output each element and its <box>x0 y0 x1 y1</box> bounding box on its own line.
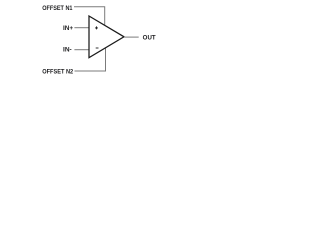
svg-text:IN-: IN- <box>63 48 72 54</box>
svg-text:OUT: OUT <box>143 35 156 41</box>
plus mark (non-inverting input) <box>95 26 98 29</box>
wire IN- to op-amp <box>74 49 89 51</box>
wire IN+ to op-amp <box>74 27 89 29</box>
svg-text:IN+: IN+ <box>63 26 74 32</box>
wire OFFSET N2 to op-amp bottom edge <box>75 48 106 71</box>
wire OFFSET N1 to op-amp top edge <box>74 7 105 26</box>
minus mark (inverting input) <box>96 47 99 49</box>
svg-text:OFFSET N1: OFFSET N1 <box>42 6 73 12</box>
wire output <box>124 36 139 38</box>
op-amp U1 triangle <box>89 16 124 58</box>
svg-text:OFFSET N2: OFFSET N2 <box>42 70 74 76</box>
